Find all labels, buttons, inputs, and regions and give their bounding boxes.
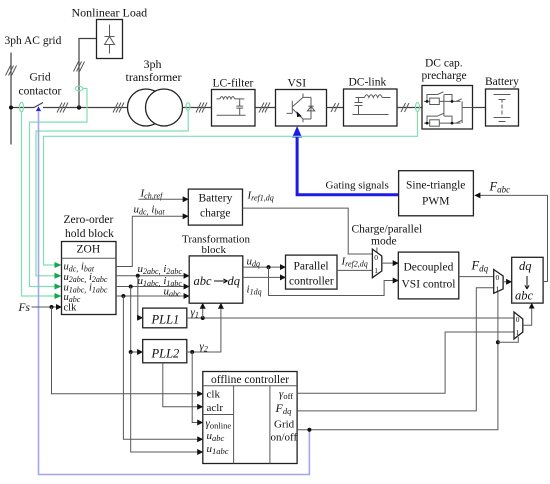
decoupled VSI control box	[398, 252, 459, 299]
wire gating signals blue	[292, 126, 398, 195]
green arrow into ZOH row2	[55, 273, 62, 279]
wire grid on/off right	[297, 292, 498, 430]
svg-text:clk: clk	[64, 303, 78, 314]
svg-text:Fs: Fs	[18, 302, 31, 314]
svg-text:abc: abc	[194, 274, 213, 288]
node u_dq tap	[267, 265, 271, 269]
wire nonlinear load branch	[74, 39, 97, 108]
wire charge/parallel select	[376, 248, 378, 253]
svg-text:on/off: on/off	[271, 432, 298, 444]
wire gamma2 out	[187, 303, 221, 352]
svg-text:dq: dq	[519, 259, 532, 273]
ZOH block	[62, 242, 117, 315]
svg-text:DC-link: DC-link	[349, 77, 387, 89]
node u_2abc tap	[136, 274, 140, 278]
svg-text:1: 1	[496, 285, 500, 294]
svg-text:Fabc: Fabc	[489, 180, 511, 195]
wire i_1dq to parallel controller	[243, 276, 286, 278]
current sensor load branch (u_1abc)	[75, 86, 83, 91]
label offline controller title + box	[203, 372, 297, 464]
svg-text:Zero-order: Zero-order	[64, 214, 114, 226]
current sensor inverter side (u_2abc)	[186, 103, 190, 111]
svg-text:clk: clk	[207, 389, 221, 401]
svg-text:controller: controller	[289, 276, 334, 288]
svg-text:Grid: Grid	[30, 72, 51, 84]
battery box	[486, 89, 519, 126]
DC cap precharge box	[422, 86, 473, 130]
svg-text:1: 1	[374, 266, 378, 275]
wire bus transformer to LC filter	[183, 103, 212, 113]
LC-filter box	[212, 90, 256, 127]
current sensor DC side (u_dc)	[416, 103, 420, 112]
node mux3 select tap	[496, 340, 500, 344]
wire I_ref2,dq to mux1	[337, 269, 372, 271]
mux3	[514, 312, 523, 339]
svg-text:Parallel: Parallel	[294, 261, 329, 273]
node nonlinear load tap	[77, 105, 81, 109]
svg-text:PLL2: PLL2	[151, 347, 180, 361]
svg-text:Sine-triangle: Sine-triangle	[406, 180, 465, 192]
svg-text:udq: udq	[247, 256, 261, 269]
wire ZOH u_1abc to abc-dq	[116, 286, 189, 288]
teal wire u_abc sensor to ZOH	[22, 112, 60, 296]
svg-text:3ph AC grid: 3ph AC grid	[5, 35, 62, 47]
grid contactor blade	[34, 103, 43, 108]
node u_1abc tap	[129, 285, 133, 289]
svg-text:charge: charge	[200, 208, 230, 220]
svg-text:Grid: Grid	[274, 419, 295, 431]
DC-link box	[344, 89, 398, 126]
green arrow into ZOH row3	[55, 284, 62, 290]
wire bus DC-link to precharge	[397, 103, 422, 112]
offline controller output labels	[271, 388, 298, 444]
svg-text:hold block: hold block	[65, 228, 114, 240]
svg-text:Gating signals: Gating signals	[326, 180, 389, 192]
wire AC bus left segment	[11, 107, 34, 109]
wire bus LC to VSI	[255, 103, 276, 113]
battery charge block	[188, 189, 242, 225]
svg-text:Battery: Battery	[485, 76, 519, 88]
wire PLL2 to aclr	[163, 363, 203, 407]
current sensor grid side (u_abc)	[20, 102, 24, 112]
svg-text:VSI: VSI	[288, 78, 307, 90]
svg-text:block: block	[202, 244, 227, 256]
node gamma2 junction	[190, 350, 194, 354]
svg-text:Fdq: Fdq	[471, 259, 489, 274]
sine-triangle PWM box	[399, 171, 474, 216]
wire mux1 to decoupled VSI	[382, 262, 399, 264]
wire AC bus segment 2	[43, 103, 128, 113]
svg-text:udc, ibat: udc, ibat	[134, 204, 166, 217]
svg-text:mode: mode	[371, 236, 397, 248]
svg-text:3ph: 3ph	[144, 57, 162, 71]
wire gamma_off to mux3	[297, 332, 514, 393]
node Fs clk tap	[50, 305, 54, 309]
svg-text:i1dq: i1dq	[247, 284, 262, 297]
teal wire u_2abc sensor to ZOH	[36, 110, 188, 275]
wire ZOH u_dc,i_bat to battery charge	[116, 216, 188, 266]
wire grid vertical feeder	[6, 53, 17, 145]
wire mux3 to dq-abc	[523, 303, 532, 325]
transformation block abc to dq	[189, 256, 243, 303]
green arrow into ZOH row4	[55, 293, 62, 299]
svg-text:u1abc, i1abc: u1abc, i1abc	[138, 275, 183, 288]
svg-text:precharge: precharge	[422, 70, 467, 82]
wire I_ch,ref input	[139, 198, 189, 200]
wire I_ref1,dq to mux1	[243, 208, 373, 254]
svg-text:aclr: aclr	[207, 402, 224, 414]
svg-text:Charge/parallel: Charge/parallel	[352, 224, 423, 236]
wire bus VSI to DC-link	[327, 103, 344, 112]
transformer T1	[128, 89, 183, 126]
wire u_abc tap to offline	[123, 296, 202, 439]
svg-text:Ich,ref: Ich,ref	[140, 188, 165, 201]
ZOH row labels	[64, 262, 108, 314]
offline controller input labels	[206, 389, 232, 457]
node bus-grid junction	[9, 106, 13, 110]
label parallel controller box	[286, 255, 338, 289]
wire gamma1 out	[187, 317, 514, 319]
svg-text:PLL1: PLL1	[151, 313, 180, 327]
wire mux3 select	[498, 337, 518, 342]
wire F_dq to mux2	[459, 276, 494, 278]
wire gamma1 up to abc-dq	[202, 303, 204, 318]
green arrow into ZOH row1	[55, 262, 62, 268]
svg-text:Battery: Battery	[199, 193, 233, 205]
svg-text:Iref2,dq: Iref2,dq	[341, 256, 368, 269]
wire ZOH u_abc to abc-dq	[116, 295, 189, 297]
wire gamma2 down to gamma online	[192, 352, 203, 423]
wire Fs to clk	[32, 306, 62, 308]
svg-text:offline controller: offline controller	[211, 374, 289, 386]
node grid on/off tap	[307, 428, 311, 432]
lavender wire grid on/off to contactor	[36, 106, 310, 474]
node u_abc tap	[121, 294, 125, 298]
wire u_dq to parallel controller	[243, 266, 286, 268]
node gamma1 junction	[201, 316, 205, 320]
wire u_2abc tap to PLL1	[138, 276, 143, 318]
svg-text:ZOH: ZOH	[77, 244, 101, 256]
svg-text:DC cap.: DC cap.	[425, 58, 463, 70]
svg-text:0: 0	[496, 273, 500, 282]
svg-text:Decoupled: Decoupled	[404, 262, 454, 274]
nonlinear load box with diode	[97, 20, 123, 59]
mux1 charge/parallel	[372, 249, 381, 278]
wire ZOH u_2abc to abc-dq	[116, 275, 189, 277]
wire offline F_dq to mux2	[297, 288, 494, 411]
wire F_abc feedback	[475, 195, 548, 281]
wire mux2 to dq-abc	[503, 281, 512, 283]
wire u_1abc tap to PLL2 and offline	[131, 287, 143, 353]
node u_1abc to PLL2 junction	[129, 350, 133, 354]
teal wire u_dc sensor to ZOH	[44, 112, 418, 266]
svg-text:Iref1,dq: Iref1,dq	[247, 190, 274, 203]
wire precharge to battery	[473, 107, 486, 109]
VSI box with IGBT	[276, 90, 327, 127]
svg-text:PWM: PWM	[422, 196, 449, 208]
svg-text:0: 0	[374, 253, 378, 262]
wire u_1abc tap down to offline	[131, 352, 203, 452]
svg-text:transformer: transformer	[126, 70, 182, 84]
wire u_dq tap to decoupled VSI control	[269, 267, 399, 295]
svg-text:contactor: contactor	[19, 86, 62, 98]
svg-text:VSI control: VSI control	[402, 279, 456, 291]
svg-text:LC-filter: LC-filter	[213, 78, 254, 90]
svg-text:Nonlinear Load: Nonlinear Load	[72, 6, 148, 20]
PLL2 block	[143, 340, 187, 363]
dq to abc box	[512, 257, 543, 303]
teal wire u_1abc sensor to ZOH	[30, 89, 88, 287]
PLL1 block	[143, 308, 187, 328]
wire clk to offline controller	[52, 307, 203, 394]
mux2	[494, 270, 503, 294]
svg-text:0: 0	[516, 315, 520, 324]
svg-text:dq: dq	[228, 274, 241, 288]
svg-text:abc: abc	[515, 289, 534, 303]
svg-text:1: 1	[516, 328, 520, 337]
